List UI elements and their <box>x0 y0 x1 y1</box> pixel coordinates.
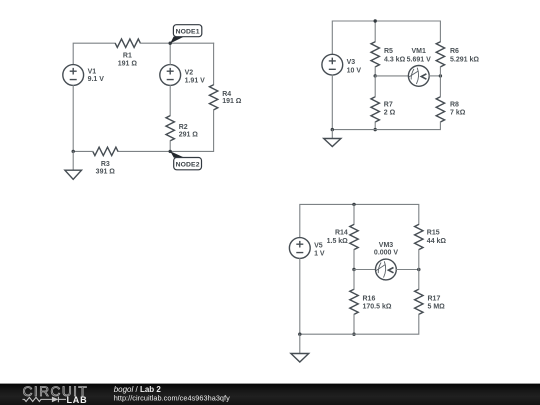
node NODE2 label <box>174 158 202 170</box>
svg-text:V1: V1 <box>88 69 97 76</box>
wire R5 to mid junction <box>374 67 376 76</box>
junction R5/R7/VM1 <box>374 74 377 77</box>
node NODE2 label pointer <box>170 151 184 157</box>
wire V5 to bottom-left corner <box>299 258 301 334</box>
wire R7 bottom lead <box>374 122 376 130</box>
svg-text:R1: R1 <box>123 53 132 60</box>
junction ground corner <box>298 333 301 336</box>
wire top from R1 to node NODE1 and right corner <box>140 42 213 44</box>
wire R4 to bottom-right corner to NODE2 <box>170 110 213 151</box>
voltage source V2 <box>160 65 181 86</box>
voltage source V3 <box>322 54 343 75</box>
svg-text:VM3: VM3 <box>379 242 394 249</box>
logo resistor squiggle <box>23 397 52 401</box>
voltage source V5 <box>289 238 310 259</box>
wire left side V1 to bottom-left corner <box>72 85 74 151</box>
svg-text:1.5 kΩ: 1.5 kΩ <box>327 238 349 245</box>
svg-text:0.000 V: 0.000 V <box>374 250 398 257</box>
wire R15 to mid junction <box>418 250 420 270</box>
svg-text:R14: R14 <box>335 229 348 236</box>
wire V3 to bottom-left corner <box>331 75 333 130</box>
voltmeter VM1 <box>408 66 429 87</box>
svg-text:1.91 V: 1.91 V <box>185 78 206 85</box>
wire R17 bottom lead and bottom rail <box>300 314 419 334</box>
resistor R1 <box>115 39 140 47</box>
svg-text:9.1 V: 9.1 V <box>88 76 105 83</box>
svg-text:5.691 V: 5.691 V <box>407 56 431 63</box>
resistor R4 <box>209 85 217 110</box>
junction bottom of R7 branch <box>374 128 377 131</box>
wire R17 top lead <box>418 270 420 290</box>
svg-text:V5: V5 <box>314 243 323 250</box>
resistor R2 <box>166 116 174 141</box>
junction R14/R16/VM3 <box>352 268 355 271</box>
svg-text:V2: V2 <box>185 69 194 76</box>
svg-text:44 kΩ: 44 kΩ <box>427 238 447 245</box>
svg-text:R7: R7 <box>384 102 393 109</box>
svg-text:5.291 kΩ: 5.291 kΩ <box>450 56 479 63</box>
svg-text:V3: V3 <box>347 59 356 66</box>
svg-text:10 V: 10 V <box>347 67 362 74</box>
junction R15/R17/VM3 <box>417 268 420 271</box>
logo diode <box>52 397 66 403</box>
resistor R17 <box>415 289 423 314</box>
svg-text:R15: R15 <box>427 229 440 236</box>
svg-text:291 Ω: 291 Ω <box>179 132 199 139</box>
resistor R5 <box>371 42 379 67</box>
wire mid to VM3 left <box>354 269 375 271</box>
wire top from V3 to R5 branch and R6 branch <box>332 21 440 54</box>
ground <box>65 151 82 179</box>
svg-text:bogol / Lab 2: bogol / Lab 2 <box>114 385 162 394</box>
wire mid to VM1 left <box>375 75 408 77</box>
svg-text:NODE1: NODE1 <box>176 29 200 36</box>
svg-text:http://circuitlab.com/ce4s963h: http://circuitlab.com/ce4s963ha3qfy <box>114 394 230 403</box>
voltmeter VM3 <box>376 259 397 280</box>
junction ground corner <box>331 128 334 131</box>
resistor R3 <box>93 147 118 155</box>
svg-text:R3: R3 <box>101 161 110 168</box>
svg-text:R4: R4 <box>222 91 231 98</box>
junction top of R5 branch <box>374 19 377 22</box>
junction top of R14 branch <box>352 203 355 206</box>
svg-text:2 Ω: 2 Ω <box>384 110 396 117</box>
voltage source V1 <box>63 65 84 86</box>
svg-text:R8: R8 <box>450 102 459 109</box>
junction bottom of R16 branch <box>352 333 355 336</box>
svg-text:LAB: LAB <box>67 395 88 405</box>
svg-text:R16: R16 <box>363 295 376 302</box>
resistor R7 <box>371 97 379 122</box>
resistor R14 <box>350 224 358 249</box>
svg-text:4.3 kΩ: 4.3 kΩ <box>384 56 406 63</box>
wire V2 to R2 <box>169 85 171 115</box>
resistor R16 <box>350 289 358 314</box>
svg-text:170.5 kΩ: 170.5 kΩ <box>363 303 392 310</box>
svg-text:7 kΩ: 7 kΩ <box>450 110 466 117</box>
svg-text:R2: R2 <box>179 124 188 131</box>
svg-text:R6: R6 <box>450 48 459 55</box>
wire top-left from V1 to R1 <box>73 43 115 64</box>
svg-text:191 Ω: 191 Ω <box>118 61 138 68</box>
svg-text:NODE2: NODE2 <box>176 161 200 168</box>
svg-text:391 Ω: 391 Ω <box>96 169 116 176</box>
svg-text:VM1: VM1 <box>411 48 426 55</box>
wire R3 to ground corner <box>73 150 93 152</box>
svg-text:1 V: 1 V <box>314 250 325 257</box>
wire top rail <box>300 204 419 237</box>
wire R8 top lead <box>439 76 441 97</box>
svg-text:5 MΩ: 5 MΩ <box>428 303 446 310</box>
wire right branch down to R4 <box>213 43 215 84</box>
wire R14 top lead <box>353 204 355 224</box>
wire R16 top lead <box>353 270 355 290</box>
wire R8 bottom lead and bottom rail <box>332 122 440 130</box>
node NODE1 label <box>173 25 201 37</box>
wire R7 top lead <box>374 76 376 97</box>
wire VM3 right to R15 branch <box>396 269 418 271</box>
resistor R8 <box>436 97 444 122</box>
node NODE1 label pointer <box>170 37 184 44</box>
junction at bottom-left <box>72 150 75 153</box>
wire R5 top lead <box>374 21 376 42</box>
resistor R6 <box>436 42 444 67</box>
wire NODE2 to R3 <box>118 150 170 152</box>
resistor R15 <box>415 224 423 249</box>
wire R2 to node NODE2 <box>169 141 171 152</box>
wire R16 bottom lead <box>353 314 355 334</box>
wire NODE1 down to V2 <box>169 43 171 64</box>
wire VM1 right to R6 branch <box>429 75 440 77</box>
svg-text:191 Ω: 191 Ω <box>222 98 242 105</box>
junction R6/R8/VM1 <box>439 74 442 77</box>
svg-text:R5: R5 <box>384 48 393 55</box>
node NODE1 junction dot <box>169 42 172 45</box>
wire R14 to mid junction <box>353 250 355 270</box>
node NODE2 junction dot <box>169 150 172 153</box>
ground <box>291 334 309 362</box>
wire R6 to mid junction <box>439 67 441 76</box>
ground <box>324 130 341 147</box>
svg-text:R17: R17 <box>428 295 441 302</box>
